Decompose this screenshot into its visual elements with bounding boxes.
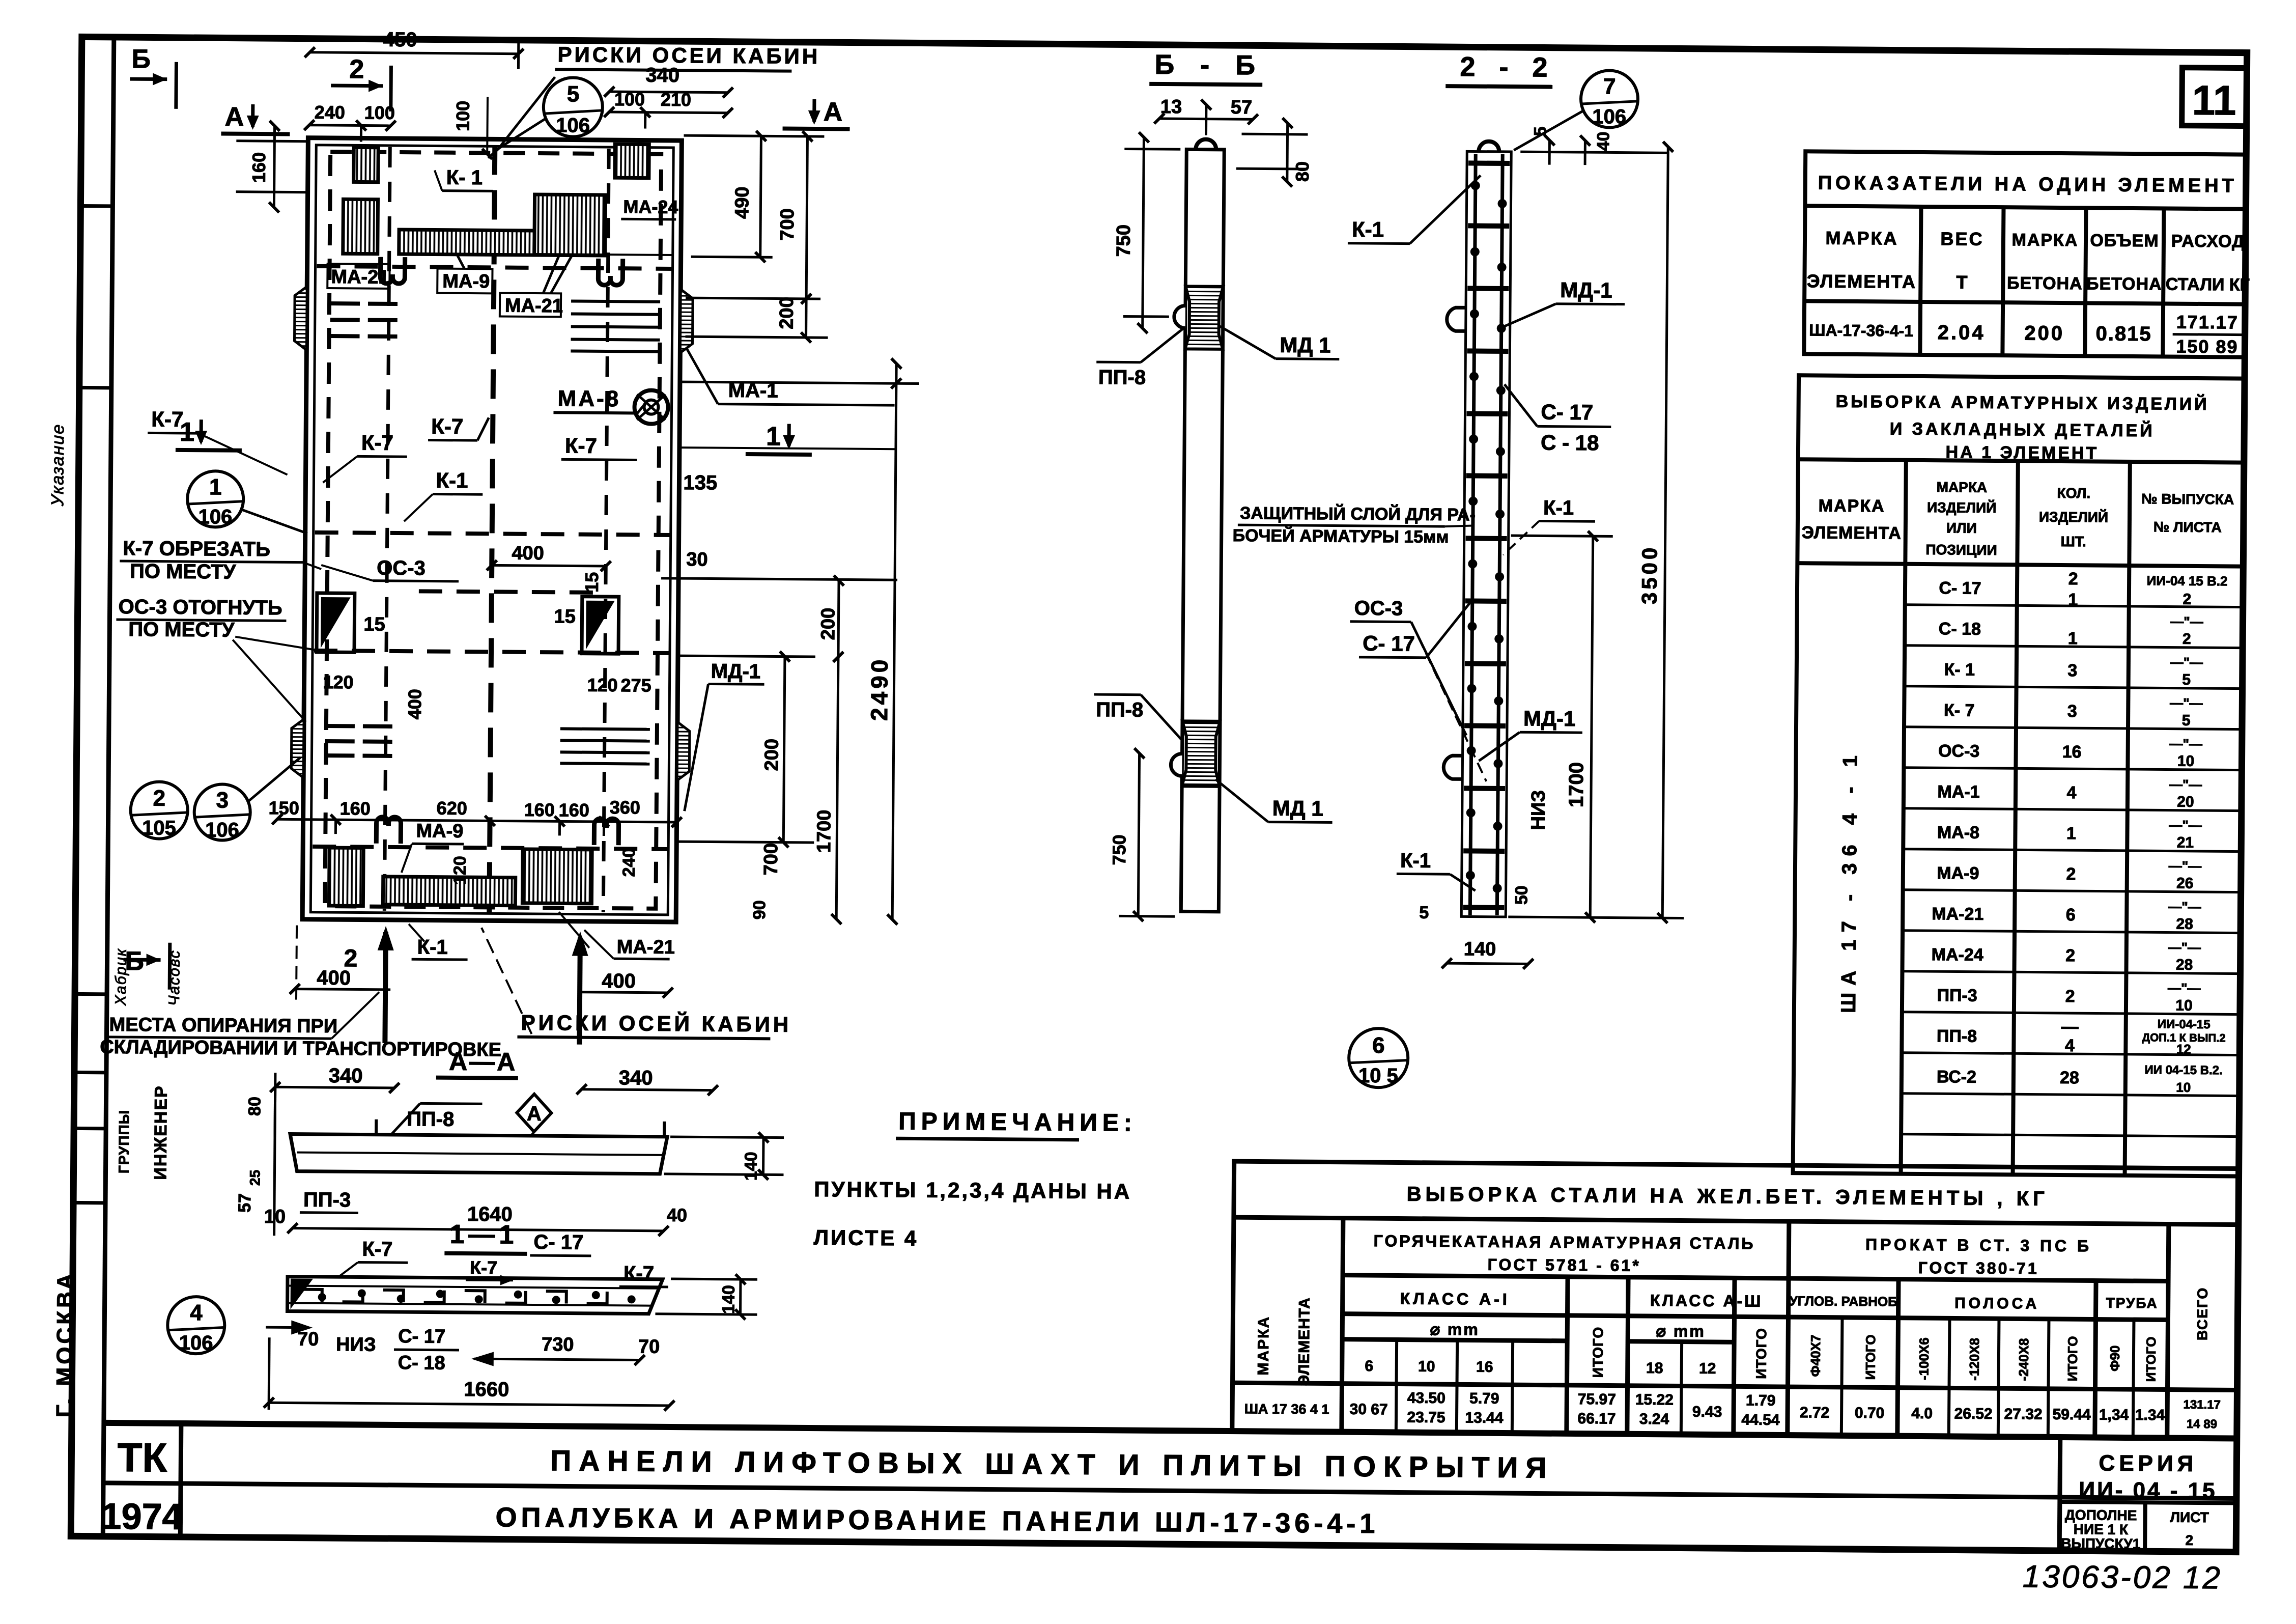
svg-text:450: 450	[383, 29, 417, 51]
Б-Б bar body	[1181, 149, 1224, 912]
svg-text:620: 620	[437, 798, 467, 819]
svg-text:400: 400	[602, 970, 636, 992]
text риски осей кабин (bottom)	[480, 928, 792, 1039]
section marker Б bottom-left	[123, 942, 170, 990]
svg-text:ПУНКТЫ 1,2,3,4 ДАНЫ НА: ПУНКТЫ 1,2,3,4 ДАНЫ НА	[814, 1177, 1131, 1203]
svg-text:ПП-3: ПП-3	[1937, 986, 1977, 1005]
right-side vertical dims 490/700/200	[683, 135, 830, 338]
svg-text:ПРОКАТ В СТ. 3 ПС Б: ПРОКАТ В СТ. 3 ПС Б	[1865, 1235, 2092, 1255]
dash cluster right top (water lines)	[571, 301, 660, 352]
svg-text:НИЕ 1 К: НИЕ 1 К	[2074, 1521, 2129, 1537]
svg-text:ВЕС: ВЕС	[1940, 228, 1983, 249]
2-2 защитный слой text	[1233, 503, 1476, 547]
label МА-8	[553, 386, 645, 413]
svg-text:1660: 1660	[464, 1378, 509, 1401]
dashed horizontal line mid1	[315, 533, 671, 535]
svg-text:57: 57	[235, 1193, 254, 1213]
svg-text:МАРКА: МАРКА	[1825, 228, 1898, 249]
svg-text:С- 17: С- 17	[1541, 400, 1593, 424]
text риски осей кабин (top)	[501, 42, 820, 148]
svg-text:750: 750	[1113, 225, 1135, 257]
svg-text:131.17: 131.17	[2183, 1398, 2221, 1412]
svg-text:120: 120	[323, 671, 353, 692]
1-1 label С-17 right	[530, 1231, 591, 1256]
svg-text:С- 17: С- 17	[1363, 631, 1415, 656]
svg-text:700: 700	[777, 208, 798, 241]
svg-text:ИТОГО: ИТОГО	[1753, 1328, 1770, 1379]
svg-text:МД-1: МД-1	[1523, 706, 1576, 731]
Б-Б collar 1	[1174, 286, 1223, 349]
А-А support tick	[375, 1119, 378, 1135]
1-1 black corner left	[291, 1279, 313, 1309]
svg-text:1: 1	[2068, 590, 2078, 609]
svg-text:ПРИМЕЧАНИЕ:: ПРИМЕЧАНИЕ:	[898, 1108, 1137, 1136]
svg-text:1700: 1700	[1565, 762, 1588, 807]
svg-text:30 67: 30 67	[1349, 1401, 1387, 1418]
svg-text:43.50: 43.50	[1407, 1390, 1445, 1407]
svg-text:40: 40	[667, 1205, 687, 1225]
svg-text:9.43: 9.43	[1692, 1404, 1722, 1420]
bottom edge dim 400 right with arrow	[579, 938, 668, 1045]
Б-Б top loop МА-8	[1196, 139, 1216, 149]
svg-text:—"—: —"—	[2168, 981, 2201, 996]
embed plate MA-21 top left	[343, 199, 378, 254]
svg-text:70: 70	[297, 1329, 319, 1350]
svg-text:Б: Б	[131, 44, 151, 74]
svg-text:1.34: 1.34	[2135, 1407, 2165, 1423]
svg-text:59.44: 59.44	[2052, 1406, 2091, 1423]
svg-text:ВЫБОРКА СТАЛИ НА ЖЕЛ.БЕТ.: ВЫБОРКА СТАЛИ НА ЖЕЛ.БЕТ. ЭЛЕМЕНТЫ , КГ	[1406, 1183, 2048, 1210]
label К-7 (center)	[428, 414, 489, 440]
svg-text:340: 340	[645, 64, 679, 87]
1-1 internal hooks	[302, 1290, 607, 1304]
2-2 label К-1 mid	[1503, 496, 1595, 555]
embed plate MA-21 bottom left	[329, 848, 363, 906]
svg-text:ЭЛЕМЕНТА: ЭЛЕМЕНТА	[1807, 270, 1917, 292]
anchor hook left bottom	[376, 817, 401, 844]
svg-text:5: 5	[1419, 903, 1429, 922]
svg-text:УГЛОВ. РАВНОБ: УГЛОВ. РАВНОБ	[1789, 1293, 1897, 1309]
2-2 label МД-1 upper	[1500, 277, 1625, 329]
svg-text:400: 400	[317, 967, 351, 989]
svg-text:490: 490	[731, 186, 753, 219]
svg-text:106: 106	[198, 506, 232, 528]
callout circle 5/106	[488, 77, 603, 159]
svg-text:ИТОГО: ИТОГО	[2143, 1336, 2159, 1382]
svg-text:160: 160	[248, 152, 269, 183]
svg-text:МД 1: МД 1	[1272, 796, 1323, 821]
svg-text:400: 400	[512, 543, 544, 564]
svg-text:140: 140	[719, 1285, 738, 1314]
svg-text:5: 5	[2182, 671, 2191, 688]
ОС-3 anchor square right (half filled)	[582, 597, 619, 654]
svg-text:5: 5	[1530, 126, 1550, 136]
svg-text:К-7: К-7	[362, 1238, 392, 1261]
svg-text:—"—: —"—	[2170, 736, 2203, 751]
svg-text:МА-1: МА-1	[1937, 782, 1979, 802]
svg-text:ИИ 04-15 В.2.: ИИ 04-15 В.2.	[2144, 1063, 2222, 1077]
svg-text:ОС-3: ОС-3	[1938, 741, 1980, 761]
svg-text:2490: 2490	[866, 656, 893, 721]
svg-text:171.17: 171.17	[2176, 312, 2238, 333]
callout circle 6/105	[1349, 1028, 1408, 1088]
svg-text:ИТОГО: ИТОГО	[1863, 1334, 1879, 1380]
1-1 label К-7 left	[338, 1238, 408, 1277]
long vertical dim 2490	[678, 362, 919, 919]
Б-Б dims 13 57	[1159, 104, 1253, 135]
section marker 1 right	[682, 421, 896, 455]
section 2-2 title	[1445, 51, 1556, 87]
svg-text:ВС-2: ВС-2	[1937, 1067, 1976, 1087]
embed plate MA-21 bottom right	[522, 849, 592, 904]
svg-text:⌀ mm: ⌀ mm	[1430, 1320, 1480, 1339]
svg-text:3: 3	[2067, 661, 2077, 680]
label МА-9 bottom	[402, 820, 464, 873]
callout circle 4/106	[167, 1297, 225, 1355]
svg-text:150 89: 150 89	[2176, 336, 2238, 357]
Б-Б dim 750	[1123, 137, 1181, 328]
label К-7 (right of МА-8)	[561, 433, 637, 460]
svg-text:БОЧЕЙ АРМАТУРЫ 15мм: БОЧЕЙ АРМАТУРЫ 15мм	[1233, 525, 1449, 547]
svg-text:МЕСТА ОПИРАНИЯ ПРИ: МЕСТА ОПИРАНИЯ ПРИ	[109, 1014, 337, 1037]
svg-text:ВЫПУСКУ1: ВЫПУСКУ1	[2061, 1535, 2140, 1552]
svg-text:80: 80	[245, 1097, 264, 1116]
bottom edge dim 400 left with arrow	[294, 926, 391, 1043]
2-2 top loop	[1479, 142, 1499, 152]
top dimension line 450	[309, 39, 518, 69]
svg-text:—"—: —"—	[2169, 858, 2202, 874]
1-1 dim 730	[474, 1359, 640, 1360]
А-А dim 140 right	[664, 1137, 784, 1175]
svg-text:МА-9: МА-9	[416, 820, 463, 842]
svg-text:120: 120	[587, 675, 617, 695]
svg-text:50: 50	[1512, 885, 1531, 905]
svg-text:2: 2	[2065, 946, 2075, 965]
2-2 label МД-1 lower	[1479, 706, 1582, 762]
svg-text:750: 750	[1109, 834, 1129, 865]
svg-text:106: 106	[556, 114, 590, 136]
А-А dim 340 left	[275, 1073, 394, 1140]
svg-text:3.24: 3.24	[1639, 1411, 1669, 1427]
label МА-9 top	[437, 255, 493, 294]
svg-text:13063-02 12: 13063-02 12	[2023, 1559, 2223, 1595]
svg-text:ИНЖЕНЕР: ИНЖЕНЕР	[151, 1085, 171, 1180]
svg-text:ША 17 36 4 1: ША 17 36 4 1	[1244, 1401, 1329, 1417]
svg-text:К-1: К-1	[1352, 217, 1384, 241]
svg-text:А: А	[527, 1103, 542, 1125]
section marker 2 bottom	[344, 945, 357, 972]
svg-text:С - 18: С - 18	[1541, 430, 1599, 455]
svg-text:26: 26	[2176, 875, 2194, 892]
svg-text:5: 5	[2182, 712, 2191, 729]
1-1 body	[288, 1276, 663, 1313]
svg-text:4: 4	[190, 1300, 203, 1325]
svg-text:—"—: —"—	[2170, 655, 2203, 670]
svg-text:—: —	[2061, 1017, 2079, 1037]
svg-text:15.22: 15.22	[1635, 1391, 1674, 1409]
svg-text:СТАЛИ КГ: СТАЛИ КГ	[2166, 274, 2250, 294]
svg-text:ПОЛОСА: ПОЛОСА	[1954, 1295, 2039, 1312]
left margin vertical annotations	[41, 424, 187, 1418]
svg-text:НИЗ: НИЗ	[1528, 790, 1550, 830]
svg-text:БЕТОНА: БЕТОНА	[2086, 274, 2162, 294]
svg-text:14 89: 14 89	[2187, 1417, 2217, 1431]
svg-text:ИЗДЕЛИЙ: ИЗДЕЛИЙ	[1927, 499, 1996, 516]
svg-text:ВСЕГО: ВСЕГО	[2194, 1287, 2210, 1341]
svg-text:ТК: ТК	[117, 1435, 167, 1480]
svg-text:5: 5	[567, 81, 580, 106]
svg-text:КЛАСС А-I: КЛАСС А-I	[1400, 1289, 1510, 1308]
svg-text:2: 2	[2066, 864, 2076, 884]
Б-Б label МД 1 upper	[1220, 326, 1339, 359]
callout circle 3/106	[194, 757, 300, 842]
2-2 left knob lower	[1443, 755, 1462, 779]
svg-text:21: 21	[2177, 834, 2194, 851]
svg-text:К-1: К-1	[436, 468, 468, 492]
2-2 left knob upper	[1447, 307, 1466, 331]
svg-text:—"—: —"—	[2169, 777, 2202, 792]
svg-text:ПО МЕСТУ: ПО МЕСТУ	[130, 560, 237, 583]
1-1 rebar dots	[318, 1289, 636, 1305]
svg-text:РИСКИ ОСЕЙ КАБИН: РИСКИ ОСЕЙ КАБИН	[521, 1010, 792, 1037]
svg-text:140: 140	[1464, 938, 1496, 960]
svg-text:100: 100	[452, 101, 473, 131]
svg-text:С- 18: С- 18	[1939, 619, 1981, 639]
svg-text:2: 2	[2182, 631, 2191, 648]
svg-text:28: 28	[2176, 916, 2193, 933]
svg-text:28: 28	[2060, 1068, 2079, 1087]
1-1 НИЗ С-17/С-18	[336, 1325, 460, 1374]
label К-1 (mid)	[404, 468, 483, 522]
axis dashed line left	[384, 147, 390, 911]
svg-text:-240Х8: -240Х8	[2016, 1338, 2032, 1381]
svg-text:360: 360	[610, 797, 640, 818]
svg-text:—"—: —"—	[2168, 899, 2201, 914]
svg-text:2 - 2: 2 - 2	[1460, 51, 1555, 82]
svg-text:1,34: 1,34	[2099, 1407, 2129, 1423]
svg-text:ГОСТ 380-71: ГОСТ 380-71	[1918, 1258, 2039, 1278]
svg-text:16: 16	[2062, 742, 2082, 762]
svg-text:-100Х6: -100Х6	[1916, 1337, 1932, 1380]
axis dashed line right	[603, 149, 609, 912]
2-2 rebar dots	[1466, 181, 1507, 892]
ОС-3 anchor square left (half filled)	[317, 593, 355, 653]
dim 400 (mid, horizontal)	[492, 565, 606, 566]
svg-text:11: 11	[2192, 77, 2236, 124]
2-2 dim 5 and 40 top	[1520, 140, 1669, 165]
svg-text:ПП-8: ПП-8	[1096, 698, 1143, 721]
svg-text:—"—: —"—	[2170, 695, 2203, 711]
svg-text:10: 10	[2177, 753, 2195, 770]
svg-text:40: 40	[1594, 131, 1613, 151]
svg-text:ГРУППЫ: ГРУППЫ	[116, 1110, 132, 1173]
svg-text:ЛИСТЕ 4: ЛИСТЕ 4	[813, 1225, 918, 1250]
svg-text:1: 1	[209, 474, 222, 499]
svg-text:МД-1: МД-1	[1560, 278, 1612, 302]
примечание text	[813, 1177, 1131, 1252]
label МА-1 right (top key)	[686, 348, 895, 405]
callout circle 2/105	[130, 781, 188, 839]
vertical dim 200 (right mid)	[678, 656, 815, 843]
svg-text:200: 200	[2024, 322, 2064, 345]
svg-text:57: 57	[1231, 97, 1253, 118]
svg-text:ЭЛЕМЕНТА: ЭЛЕМЕНТА	[1295, 1297, 1313, 1386]
dashed horizontal line mid2	[314, 651, 670, 653]
svg-text:12: 12	[1699, 1360, 1716, 1377]
svg-text:2: 2	[2065, 987, 2075, 1006]
svg-text:Ф90: Ф90	[2107, 1346, 2122, 1371]
svg-text:ПП-8: ПП-8	[1098, 366, 1146, 389]
svg-text:10: 10	[2176, 1080, 2191, 1095]
svg-text:№ ВЫПУСКА: № ВЫПУСКА	[2141, 491, 2234, 507]
anchor hook left top	[380, 257, 405, 284]
svg-text:К-7 ОБРЕЗАТЬ: К-7 ОБРЕЗАТЬ	[123, 537, 270, 561]
svg-text:27.32: 27.32	[2004, 1406, 2042, 1423]
left edge key (bottom)	[291, 719, 304, 778]
svg-text:1: 1	[2066, 824, 2076, 843]
svg-text:ГОРЯЧЕКАТАНАЯ АРМАТУРНАЯ СТА: ГОРЯЧЕКАТАНАЯ АРМАТУРНАЯ СТАЛЬ	[1374, 1231, 1755, 1252]
svg-text:ТРУБА: ТРУБА	[2106, 1295, 2158, 1311]
svg-text:ИЛИ: ИЛИ	[1946, 520, 1977, 536]
svg-text:1: 1	[180, 417, 194, 447]
svg-text:5.79: 5.79	[1469, 1390, 1499, 1407]
sheet number box 11	[2182, 68, 2247, 126]
svg-text:А: А	[824, 97, 843, 127]
svg-text:МА-24: МА-24	[623, 196, 678, 217]
А-А body	[290, 1134, 668, 1174]
svg-text:—"—: —"—	[2170, 614, 2203, 629]
Б-Б label МД 1 lower	[1215, 779, 1333, 823]
svg-text:12: 12	[2176, 1042, 2191, 1057]
svg-text:ИТОГО: ИТОГО	[2065, 1336, 2081, 1381]
svg-text:С- 17: С- 17	[1939, 578, 1981, 598]
label ОС-3 (mid)	[321, 556, 459, 581]
section marker Б top-left	[130, 44, 177, 109]
label К-1 bottom	[409, 924, 468, 960]
section marker 1 left	[176, 417, 242, 451]
svg-text:340: 340	[619, 1067, 653, 1089]
2-2 label ОС-3	[1349, 597, 1488, 781]
svg-text:ОПАЛУБКА И АРМИРОВАНИЕ ПАН: ОПАЛУБКА И АРМИРОВАНИЕ ПАНЕЛИ ШЛ-17-36-4…	[495, 1502, 1379, 1539]
panel outline (double line)	[302, 138, 682, 922]
svg-text:1974: 1974	[101, 1496, 183, 1537]
svg-text:75.97: 75.97	[1578, 1391, 1616, 1408]
svg-text:К-7: К-7	[470, 1257, 497, 1278]
embed plate MA-24 top right small	[615, 144, 649, 178]
svg-text:13: 13	[1160, 96, 1182, 118]
svg-text:МД-1: МД-1	[711, 660, 761, 683]
svg-text:120: 120	[450, 856, 470, 885]
2-2 label С-17 left	[1359, 602, 1470, 658]
svg-text:К-7: К-7	[623, 1262, 654, 1284]
svg-text:МА-8: МА-8	[1937, 823, 1979, 843]
svg-text:30: 30	[686, 549, 708, 570]
svg-text:16: 16	[1476, 1359, 1493, 1376]
1-1 label К-7 far right	[619, 1262, 668, 1287]
label К-7 (center-left)	[323, 430, 407, 483]
callout circle 1/106	[187, 471, 308, 534]
svg-text:Указание: Указание	[48, 424, 68, 507]
section marker А top-left	[221, 102, 290, 134]
svg-text:МА-9: МА-9	[1937, 863, 1979, 883]
svg-text:ГОСТ 5781 - 61*: ГОСТ 5781 - 61*	[1488, 1255, 1641, 1275]
svg-text:10: 10	[2175, 997, 2193, 1014]
svg-text:2.72: 2.72	[1800, 1404, 1830, 1421]
svg-text:ПО МЕСТУ: ПО МЕСТУ	[128, 618, 235, 641]
axis dashed line center	[489, 145, 495, 914]
svg-text:2: 2	[2068, 569, 2078, 589]
text места опирания	[100, 990, 502, 1061]
svg-text:МА-24: МА-24	[1932, 945, 1983, 965]
svg-text:15: 15	[581, 572, 602, 593]
svg-text:К- 1: К- 1	[1944, 660, 1975, 679]
svg-text:МА-21: МА-21	[505, 295, 563, 317]
label К-7 обрезать по месту	[120, 537, 322, 584]
svg-text:К-7: К-7	[151, 407, 183, 431]
А-А diamond А	[517, 1094, 552, 1136]
svg-text:МАРКА: МАРКА	[2011, 230, 2078, 250]
opening dashed rectangle	[325, 152, 661, 909]
svg-text:⌀ mm: ⌀ mm	[1656, 1322, 1706, 1340]
Б-Б label ПП-8 upper	[1096, 328, 1183, 389]
svg-text:ЭЛЕМЕНТА: ЭЛЕМЕНТА	[1802, 523, 1902, 543]
svg-text:—"—: —"—	[2169, 818, 2202, 833]
svg-text:К- 1: К- 1	[446, 166, 483, 189]
svg-text:Т: Т	[1956, 271, 1967, 292]
svg-text:—"—: —"—	[2168, 940, 2201, 955]
Б-Б collar 2	[1171, 721, 1220, 787]
svg-text:160: 160	[340, 798, 371, 819]
svg-text:2: 2	[349, 54, 364, 84]
svg-text:275: 275	[620, 675, 651, 695]
section marker 2 top	[331, 54, 391, 111]
svg-text:МА-21: МА-21	[617, 936, 675, 958]
svg-text:7: 7	[1603, 74, 1616, 99]
svg-text:К-1: К-1	[1400, 849, 1431, 872]
svg-text:1—1: 1—1	[449, 1220, 518, 1250]
svg-text:МАРКА: МАРКА	[1819, 496, 1885, 516]
svg-text:К-1: К-1	[1543, 497, 1574, 519]
svg-text:МАРКА: МАРКА	[1255, 1316, 1272, 1376]
svg-text:2: 2	[153, 786, 165, 811]
2-2 label К-1 bottom	[1397, 849, 1476, 890]
section marker А top-right	[783, 97, 850, 129]
А-А label ПП-3	[300, 1189, 358, 1213]
svg-text:0.815: 0.815	[2095, 322, 2151, 345]
svg-text:№ ЛИСТА: № ЛИСТА	[2153, 519, 2222, 535]
svg-text:-120Х8: -120Х8	[1967, 1338, 1982, 1381]
svg-text:Б - Б: Б - Б	[1154, 49, 1264, 81]
svg-text:10: 10	[1418, 1358, 1435, 1375]
top dimension 240,100	[309, 125, 390, 142]
svg-text:70: 70	[638, 1336, 660, 1358]
dash cluster right bottom (water lines)	[560, 729, 649, 764]
svg-text:20: 20	[2177, 794, 2194, 810]
svg-text:2: 2	[2185, 1532, 2193, 1548]
svg-text:КЛАСС А-Ш: КЛАСС А-Ш	[1650, 1291, 1763, 1310]
svg-text:10 5: 10 5	[1358, 1065, 1398, 1087]
svg-text:ИТОГО: ИТОГО	[1590, 1327, 1606, 1378]
svg-text:К-7: К-7	[361, 430, 393, 454]
svg-text:ЛИСТ: ЛИСТ	[2170, 1509, 2209, 1526]
2-2 rungs	[1463, 163, 1510, 908]
label К-7 (outside left)	[148, 407, 288, 474]
svg-text:НА 1 ЭЛЕМЕНТ: НА 1 ЭЛЕМЕНТ	[1945, 442, 2099, 463]
svg-text:730: 730	[542, 1334, 574, 1355]
label МА-24 top-right	[621, 196, 678, 219]
svg-text:1.79: 1.79	[1746, 1392, 1776, 1409]
svg-text:ИИ-04 15 В.2: ИИ-04 15 В.2	[2147, 573, 2228, 589]
